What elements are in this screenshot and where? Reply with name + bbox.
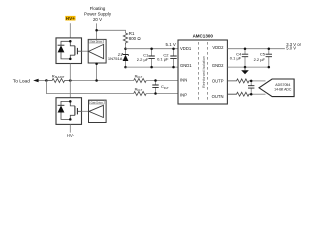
node HV+	[65, 16, 75, 21]
svg-text:RSHUNT: RSHUNT	[52, 73, 65, 79]
junction supply branch	[95, 29, 98, 32]
svg-text:CFLT: CFLT	[161, 84, 169, 90]
svg-text:2.2 µF: 2.2 µF	[137, 57, 149, 62]
svg-text:Gate Driver: Gate Driver	[90, 40, 102, 43]
wire gate driver U2 to shunt line	[96, 63, 98, 81]
isolation barrier	[199, 42, 208, 102]
svg-text:0.1 µF: 0.1 µF	[230, 56, 242, 61]
resistor R1 800 Ohm	[123, 31, 141, 49]
svg-text:Gate Driver: Gate Driver	[91, 101, 103, 104]
wire supply branch to R1	[97, 30, 126, 33]
svg-text:800 Ω: 800 Ω	[129, 36, 142, 41]
wire Q2 to HV-	[69, 124, 71, 132]
svg-text:Reinforced Isolation: Reinforced Isolation	[202, 56, 206, 88]
wire INP branch (lower sense line)	[46, 81, 133, 94]
capacitor C4 0.1 uF	[230, 47, 248, 68]
svg-text:INN: INN	[180, 78, 187, 83]
resistor RSHUNT	[46, 73, 70, 82]
svg-text:5.1 V: 5.1 V	[166, 42, 176, 47]
svg-text:To Load: To Load	[13, 78, 30, 84]
op-amp U2 gate driver (top)	[88, 39, 106, 63]
capacitor CFLT	[152, 79, 169, 95]
svg-text:HV-: HV-	[67, 133, 75, 138]
svg-text:5.0 V: 5.0 V	[286, 46, 296, 51]
op-amp U3 gate driver (bottom)	[89, 100, 107, 122]
junction phase node	[69, 79, 72, 82]
svg-text:0.1 µF: 0.1 µF	[157, 57, 169, 62]
capacitor C1 2.2 uF	[137, 47, 155, 68]
svg-text:20 V: 20 V	[93, 17, 102, 22]
node 3.3V or 5.0V	[286, 42, 301, 51]
wire Q2 gate to driver	[82, 110, 89, 112]
ADC U4 ADS7054	[259, 79, 294, 97]
resistor RFLT (INP)	[134, 86, 147, 95]
wire VDD2 rail	[227, 48, 285, 50]
wire Q1 gate to driver	[82, 50, 89, 52]
svg-text:VDD1: VDD1	[180, 46, 192, 51]
svg-text:RFLT: RFLT	[135, 73, 143, 79]
zener diode Z1 1N751A	[108, 49, 128, 67]
svg-text:ADS7054: ADS7054	[275, 83, 290, 87]
ground	[241, 67, 249, 74]
wire to-load arrow	[38, 80, 46, 82]
transistor Q1 (IGBT with freewheel diode)	[56, 38, 82, 64]
svg-text:C5: C5	[260, 52, 266, 57]
svg-text:GND1: GND1	[180, 63, 192, 68]
svg-text:Floating: Floating	[90, 6, 106, 11]
wire isolated ground rail to GND1	[126, 66, 178, 68]
wire GND2 rail	[227, 66, 268, 68]
resistor RFLT (INN)	[134, 73, 147, 82]
wire floating supply to gate driver U2	[96, 23, 98, 39]
capacitor C5 2.2 uF	[254, 47, 272, 68]
node Floating Power Supply 20 V	[84, 6, 112, 22]
svg-text:VDD2: VDD2	[212, 45, 224, 50]
wire shunt line to RFLT	[70, 80, 133, 82]
junction R1/zener	[124, 47, 127, 50]
capacitor output filter	[248, 80, 254, 96]
svg-text:GND2: GND2	[212, 63, 224, 68]
svg-text:OUTP: OUTP	[212, 78, 224, 83]
junction zener/ground rail	[124, 66, 127, 69]
svg-text:2.2 µF: 2.2 µF	[254, 57, 266, 62]
svg-text:Power Supply: Power Supply	[84, 11, 112, 16]
svg-text:1N751A: 1N751A	[108, 56, 123, 61]
svg-text:HV+: HV+	[66, 16, 75, 21]
junction driver return	[95, 79, 98, 82]
wire 5.1V rail to VDD1	[126, 48, 178, 50]
transistor Q2 (IGBT with freewheel diode)	[56, 98, 82, 125]
op-amp U1 AMC1300 isolated amplifier	[178, 33, 227, 104]
wire HV+ to Q1	[69, 23, 71, 38]
resistor output OUTN	[227, 92, 251, 96]
capacitor C2 0.1 uF	[157, 47, 177, 68]
junction shunt left	[45, 79, 48, 82]
svg-text:14-Bit ADC: 14-Bit ADC	[274, 88, 292, 92]
svg-text:OUTN: OUTN	[212, 94, 224, 99]
resistor output OUTP	[227, 79, 251, 83]
wire phase vertical Q1 to Q2	[69, 64, 71, 98]
wire RFLT to INP	[146, 93, 178, 95]
svg-text:INP: INP	[180, 93, 187, 98]
wire OUTN to ADC	[251, 93, 265, 95]
junction at driver bottom	[95, 63, 98, 66]
wire OUTP to ADC	[251, 80, 265, 82]
svg-text:RFLT: RFLT	[135, 86, 143, 92]
wire RFLT to INN	[146, 80, 178, 82]
svg-text:AMC1300: AMC1300	[193, 33, 214, 38]
